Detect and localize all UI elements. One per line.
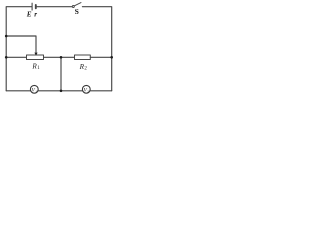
- label R2: [79, 63, 88, 72]
- wire switch to top-right corner down right side: [82, 7, 111, 91]
- node wiper on left wire: [5, 35, 8, 38]
- resistor R2 body: [75, 55, 91, 60]
- node A between R1 and R2: [60, 56, 63, 59]
- wiper arrowhead: [34, 53, 37, 56]
- battery E r: [32, 3, 36, 10]
- wire battery to switch: [37, 6, 72, 8]
- node bottom junction: [60, 90, 63, 93]
- wire top-left segment: [6, 7, 32, 36]
- switch S: [72, 3, 81, 8]
- wire bottom: [6, 90, 112, 92]
- voltmeter V1: [30, 85, 38, 93]
- wire middle left to R1: [6, 56, 26, 58]
- wire node A down to bottom: [60, 57, 62, 91]
- resistor R1 body: [27, 55, 44, 60]
- wire left side down: [5, 36, 7, 91]
- wire rheostat wiper branch: [6, 36, 36, 53]
- svg-text:E: E: [26, 11, 32, 19]
- svg-text:S: S: [75, 7, 79, 16]
- voltmeter V2: [82, 85, 90, 93]
- wire R1 to node A: [44, 56, 75, 58]
- wire R2 to right side: [90, 56, 111, 58]
- svg-text:r: r: [34, 11, 37, 19]
- label R1: [31, 62, 40, 71]
- node middle wire on left wire: [5, 56, 8, 59]
- node middle wire on right wire: [110, 56, 113, 59]
